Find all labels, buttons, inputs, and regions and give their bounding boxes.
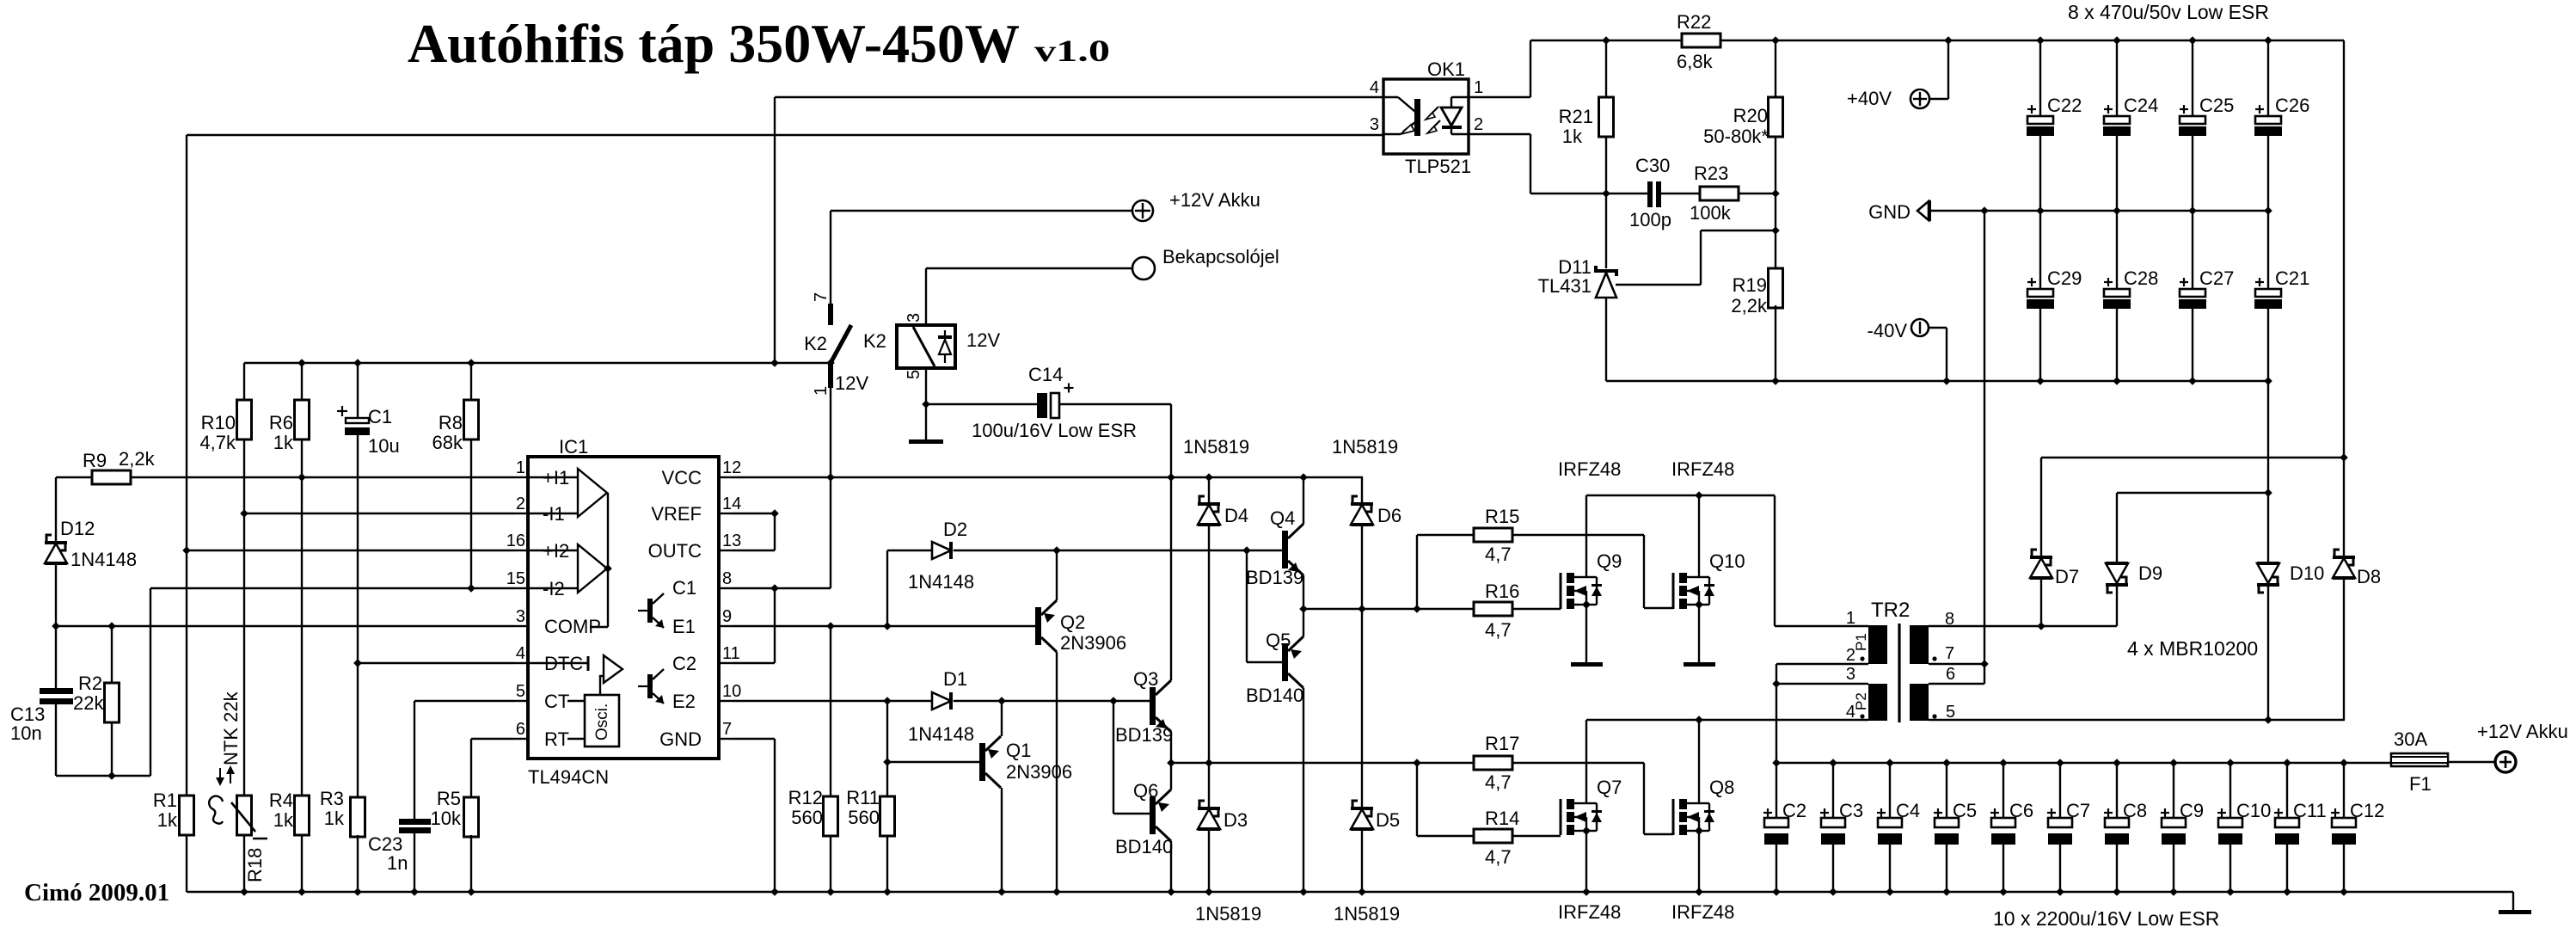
relay K2 coil 12V	[897, 325, 955, 368]
capacitor C11 2200u	[2283, 759, 2291, 767]
svg-text:C22: C22	[2047, 95, 2082, 116]
pin 10 E2 stub	[719, 700, 733, 702]
svg-text:2,2k: 2,2k	[1731, 295, 1768, 316]
diode D4 1N5819	[1199, 496, 1205, 502]
svg-text:D8: D8	[2357, 566, 2381, 587]
svg-text:Q3: Q3	[1133, 668, 1158, 690]
wire FET drain bus top	[1586, 495, 1775, 496]
OK1 LED	[1441, 108, 1462, 126]
node DTC C1 junction	[353, 659, 362, 667]
pin 15 -I2 stub	[514, 587, 528, 589]
svg-text:D7: D7	[2055, 566, 2079, 587]
node rail R8	[467, 359, 475, 367]
svg-text:+12V Akku: +12V Akku	[2477, 721, 2568, 742]
diode D10 MBR10200	[2257, 563, 2279, 583]
node R20 top	[1771, 36, 1780, 45]
wire OK1 pin2 vertical	[1530, 134, 1531, 194]
node COMP left junction	[52, 622, 60, 630]
wire C30 to R23	[1661, 193, 1700, 194]
resistor R20 50-80k*	[1769, 97, 1783, 137]
wire -40V vertical	[1946, 328, 1947, 381]
wire OK1 pin3 feedback line	[187, 134, 1383, 136]
wire TR2 pin8 line	[1929, 625, 2117, 627]
svg-text:1N4148: 1N4148	[71, 549, 137, 570]
terminal Bekapcsolójel	[1132, 257, 1155, 280]
node VCC Q4 junction	[1299, 473, 1308, 482]
node ground rail x2330	[1999, 888, 2008, 896]
wire +40V right corner vertical	[2343, 40, 2345, 556]
OK1 phototransistor	[1414, 99, 1420, 136]
svg-text:1k: 1k	[273, 432, 294, 453]
node ground rail x284	[240, 888, 248, 896]
svg-text:R4: R4	[269, 790, 293, 811]
pin 6 RT stub	[514, 738, 528, 740]
NTC arrows	[219, 768, 221, 783]
svg-text:8: 8	[722, 569, 732, 588]
wire drive line 1 (Q4/Q5 out)	[1303, 608, 1474, 610]
wire C1 pin8 line	[733, 587, 831, 589]
wire R12 bottom	[830, 835, 831, 892]
svg-text:8 x 470u/50v Low ESR: 8 x 470u/50v Low ESR	[2068, 1, 2269, 23]
node Q8 drain bus	[1695, 716, 1703, 724]
node rail R6	[297, 359, 306, 367]
resistor R14 4,7	[1474, 829, 1512, 843]
wire D2 cathode line	[954, 550, 1282, 551]
svg-text:R1: R1	[153, 790, 177, 811]
wire R4 bottom	[301, 835, 303, 892]
svg-text:10n: 10n	[10, 722, 42, 744]
svg-text:TL431: TL431	[1538, 275, 1592, 297]
resistor R15 4,7	[1474, 528, 1512, 542]
svg-text:3: 3	[1370, 115, 1379, 134]
wire +12V rail	[1776, 762, 2391, 764]
wire K2 contact to +12V Akku	[831, 210, 1132, 212]
transistor Q4 BD139	[1282, 531, 1288, 568]
svg-text:Bekapcsolójel: Bekapcsolójel	[1162, 246, 1279, 267]
wire R5 top from RT	[470, 739, 472, 797]
wire pin15 line	[150, 587, 514, 589]
wire OK1 pin1 to R22 line	[1469, 96, 1530, 98]
svg-text:C2: C2	[1782, 800, 1806, 821]
node ground rail x1362	[1167, 888, 1175, 896]
capacitor C30 100p	[1647, 181, 1653, 207]
svg-text:+40V: +40V	[1847, 88, 1892, 109]
wire R10 bottom to pin2 line	[243, 439, 245, 796]
wire D3 bottom	[1208, 829, 1210, 892]
node R19 bottom	[1771, 377, 1780, 385]
wire R3 bottom	[357, 835, 359, 892]
svg-text:1k: 1k	[273, 809, 294, 831]
transformer TR2 secondary S1	[1910, 684, 1929, 721]
node C22 bottom	[2036, 206, 2045, 215]
svg-text:5: 5	[1946, 703, 1955, 722]
wire D10 bottom	[2267, 587, 2269, 720]
node C26 top	[2264, 36, 2272, 45]
node ground rail x2726	[2340, 888, 2348, 896]
wire D2 anode line	[887, 550, 932, 551]
switch K2 contact	[828, 304, 833, 325]
svg-text:7: 7	[812, 292, 831, 302]
wire pin15 route vertical	[150, 588, 151, 776]
svg-text:4: 4	[516, 644, 525, 663]
capacitor C9 2200u	[2169, 759, 2178, 767]
wire relay to C14	[926, 403, 1037, 405]
svg-text:GND: GND	[659, 728, 702, 750]
node drive2 R14 branch	[1413, 759, 1421, 767]
pin 4 DTC stub	[514, 662, 528, 664]
svg-text:R20: R20	[1733, 105, 1768, 126]
resistor R3 1k	[351, 797, 365, 837]
wire C1-C2 tie vertical	[774, 588, 776, 663]
svg-text:1N5819: 1N5819	[1332, 436, 1398, 458]
svg-text:IRFZ48: IRFZ48	[1671, 901, 1734, 923]
wire R15 to Q10 jog	[1512, 534, 1644, 536]
wire R19 bottom	[1775, 305, 1776, 381]
svg-text:IRFZ48: IRFZ48	[1558, 901, 1621, 923]
wire R16 to Q9 gate	[1512, 608, 1561, 610]
wire R11 bottom	[886, 835, 888, 892]
svg-text:2: 2	[1846, 646, 1855, 665]
svg-text:1: 1	[516, 458, 525, 477]
wire D11 bottom to -40V line	[1605, 298, 1607, 381]
svg-text:D1: D1	[943, 668, 967, 690]
node ground rail x482	[410, 888, 419, 896]
wire RT line	[471, 738, 514, 740]
svg-text:C30: C30	[1635, 155, 1670, 176]
svg-text:1k: 1k	[1562, 126, 1583, 147]
node R11 Q1 base junction	[883, 758, 892, 766]
svg-text:Q10: Q10	[1709, 550, 1745, 572]
wire D7 bottom	[2040, 578, 2042, 626]
svg-text:12V: 12V	[966, 329, 1000, 351]
node pin8 D7	[2037, 622, 2045, 630]
node ground rail x351	[297, 888, 306, 896]
capacitor C22 470u	[2039, 40, 2041, 116]
svg-text:12: 12	[722, 458, 741, 477]
svg-text:R10: R10	[201, 412, 236, 433]
wire -40V link	[1929, 327, 1947, 329]
wire R2 bottom	[111, 722, 113, 776]
node rail C1	[353, 359, 362, 367]
wire TR2 pin3	[1776, 683, 1868, 685]
node pin8 tie	[770, 584, 779, 593]
node VCC K2 junction	[826, 473, 835, 482]
wire Q8 drain up	[1698, 720, 1700, 803]
node ground rail x416	[353, 888, 362, 896]
wire TR2 pin5 line	[1929, 719, 2345, 721]
svg-text:C21: C21	[2275, 267, 2309, 289]
wire jog to Q10 gate	[1644, 607, 1673, 609]
wire C14 vertical to VCC	[1170, 404, 1172, 477]
node -40V branch	[1942, 377, 1951, 385]
svg-text:R8: R8	[439, 412, 463, 433]
svg-text:3: 3	[1846, 665, 1855, 684]
wire GND rail	[1930, 210, 2268, 212]
node ground rail x2462	[2113, 888, 2121, 896]
ground relay	[909, 439, 943, 444]
svg-text:1N4148: 1N4148	[908, 571, 974, 593]
svg-text:100k: 100k	[1690, 202, 1732, 224]
node C1 DTC junction	[353, 659, 362, 667]
node ground rail x548	[467, 888, 475, 896]
pin 9 E1 stub	[719, 625, 733, 627]
svg-text:4,7: 4,7	[1485, 544, 1512, 565]
node ground rail x2066	[1772, 888, 1781, 896]
capacitor C12 2200u	[2340, 759, 2348, 767]
fuse F1 30A	[2391, 753, 2448, 766]
node Q10 drain bus	[1695, 491, 1703, 500]
wire Q2 base from E1	[1034, 625, 1036, 627]
op-amp IC1 TL494CN body	[528, 457, 719, 759]
wire D4 top	[1208, 477, 1210, 502]
IC1 error amplifier 1	[578, 469, 607, 517]
wire R19 top	[1775, 230, 1776, 268]
node E1 D2 branch	[883, 622, 892, 630]
capacitor C4 2200u	[1886, 759, 1894, 767]
svg-text:5: 5	[905, 370, 923, 379]
svg-text:BD139: BD139	[1246, 567, 1303, 588]
wire F1 to +12V Akku	[2448, 761, 2495, 763]
svg-text:RT: RT	[544, 728, 569, 750]
pin 14 VREF stub	[719, 513, 733, 514]
IC1 oscillator to comparator wire	[600, 676, 604, 695]
svg-text:K2: K2	[804, 333, 827, 354]
node ground rail x1516	[1299, 888, 1308, 896]
wire -40V feedback line	[1606, 380, 2268, 382]
svg-text:C29: C29	[2047, 267, 2082, 289]
svg-text:14: 14	[722, 495, 741, 513]
svg-text:Autóhifis táp 350W-450W: Autóhifis táp 350W-450W	[408, 13, 1020, 74]
node D6 D5 drive junction	[1358, 605, 1366, 613]
wire R15 jog vertical	[1643, 535, 1645, 608]
wire D8 bottom	[2343, 578, 2345, 720]
svg-text:BD139: BD139	[1115, 724, 1173, 746]
wire Q4 Q5 base tie vertical	[1246, 550, 1248, 662]
node C27 bottom rail	[2188, 377, 2197, 385]
wire Q8 source down	[1698, 831, 1700, 892]
node R20 R23	[1771, 189, 1780, 198]
svg-text:R15: R15	[1485, 506, 1519, 527]
svg-text:3: 3	[516, 607, 525, 626]
wire Q5 collector down	[1303, 688, 1304, 892]
svg-text:Q8: Q8	[1709, 777, 1734, 798]
svg-text:Cimó 2009.01: Cimó 2009.01	[24, 879, 169, 906]
resistor R5 10k	[464, 797, 479, 837]
svg-text:C28: C28	[2124, 267, 2158, 289]
OK1 light arrows	[1429, 107, 1438, 116]
Q9 source bar	[1571, 662, 1603, 667]
wire Q3 base branch vertical	[1113, 701, 1114, 814]
wire OK1 pin2 right	[1469, 133, 1530, 135]
wire D11 top	[1605, 194, 1607, 268]
ground symbol bottom right	[2512, 892, 2514, 910]
node C25 bottom	[2188, 206, 2197, 215]
wire +40V top rail	[1530, 40, 2344, 41]
transformer TR2 core	[1898, 624, 1900, 722]
TR2 phase dots	[1860, 656, 1864, 661]
capacitor C27 470u	[2192, 211, 2193, 289]
svg-text:C26: C26	[2275, 95, 2309, 116]
svg-text:10k: 10k	[431, 808, 462, 829]
svg-text:R14: R14	[1485, 808, 1519, 829]
wire OK1 pin4 feedback line	[775, 96, 1383, 98]
wire jog to Q8 gate	[1644, 833, 1673, 835]
node C2 top	[1772, 759, 1781, 767]
svg-text:4,7: 4,7	[1485, 619, 1512, 641]
pin 2 -I1 stub	[514, 513, 528, 514]
wire R21 top	[1605, 40, 1607, 97]
wire D7 vertical top	[2040, 458, 2042, 556]
wire Q10 drain up	[1698, 495, 1700, 577]
svg-text:C24: C24	[2124, 95, 2158, 116]
wire R1 bottom to ground rail	[186, 835, 187, 892]
diode D5 1N5819	[1352, 801, 1358, 807]
resistor R2 22k	[105, 683, 120, 722]
wire Q7 source down	[1585, 831, 1587, 892]
svg-text:C3: C3	[1839, 800, 1863, 821]
capacitor C25 470u	[2192, 40, 2193, 116]
wire TR2 centre tap to +12V rail	[1776, 684, 1777, 763]
svg-text:Q1: Q1	[1006, 740, 1031, 761]
svg-text:R12: R12	[788, 787, 823, 808]
node ground rail x1976	[1695, 888, 1703, 896]
transistor Q5 BD140	[1282, 643, 1288, 681]
node VREF tie	[770, 509, 779, 518]
svg-text:D4: D4	[1224, 505, 1248, 526]
svg-text:GND: GND	[1868, 201, 1911, 223]
svg-text:OUTC: OUTC	[648, 540, 702, 562]
svg-text:R5: R5	[437, 788, 461, 809]
node R8 pin15 junction	[467, 584, 475, 593]
node pin3 tie	[1772, 679, 1781, 688]
node R10 pin2 junction	[240, 509, 248, 518]
svg-text:OK1: OK1	[1427, 58, 1465, 80]
svg-text:2,2k: 2,2k	[119, 448, 156, 470]
svg-text:2: 2	[516, 495, 525, 513]
transformer TR2 primary P2	[1868, 684, 1887, 721]
svg-text:11: 11	[722, 644, 740, 663]
svg-text:v1.0: v1.0	[1034, 34, 1110, 68]
pin 11 C2 stub	[719, 662, 733, 664]
wire D4 to drive line 2	[1208, 525, 1210, 807]
pin 5 CT stub	[514, 700, 528, 702]
wire E1 line	[733, 625, 1035, 627]
svg-text:4,7k: 4,7k	[199, 432, 236, 453]
svg-text:1: 1	[1846, 609, 1855, 628]
svg-text:1k: 1k	[157, 809, 178, 831]
wire K2 pin7 vertical	[830, 211, 831, 304]
node ground rail x1584	[1358, 888, 1366, 896]
wire drive line 2 (Q3/Q6 out)	[1171, 762, 1474, 764]
resistor R17 4,7	[1474, 756, 1512, 770]
wire C2 pin11 stub	[733, 662, 775, 664]
wire R14 branch vertical	[1416, 763, 1418, 836]
svg-text:R17: R17	[1485, 733, 1519, 754]
capacitor C29 470u	[2039, 211, 2041, 289]
svg-text:6,8k: 6,8k	[1677, 51, 1714, 72]
node C25 top	[2188, 36, 2197, 45]
svg-text:D9: D9	[2138, 562, 2162, 584]
wire Q2 collector down	[1056, 652, 1058, 892]
svg-text:D3: D3	[1224, 809, 1248, 831]
wire C23 bottom	[414, 833, 415, 892]
node C28 bottom rail	[2113, 377, 2121, 385]
node E2 R11	[883, 697, 892, 705]
svg-text:1N5819: 1N5819	[1334, 903, 1400, 925]
node R20 ref	[1771, 226, 1780, 235]
capacitor C28 470u	[2116, 211, 2118, 289]
optocoupler OK1 TLP521	[1383, 79, 1469, 154]
pin 3 COMP stub	[514, 625, 528, 627]
wire VCC rail	[733, 476, 1363, 478]
svg-text:12V: 12V	[835, 372, 868, 394]
node R21 bottom	[1602, 189, 1610, 198]
svg-text:TLP521: TLP521	[1405, 156, 1471, 177]
wire relay pin3 up	[925, 268, 927, 325]
capacitor C21 470u	[2267, 211, 2269, 289]
svg-text:C4: C4	[1896, 800, 1920, 821]
wire Q9 source down	[1585, 605, 1587, 662]
svg-text:C8: C8	[2123, 800, 2147, 821]
capacitor C26 470u	[2267, 40, 2269, 116]
wire pin16 line to R1 column	[187, 550, 514, 551]
wire D9-D10 line	[2117, 492, 2268, 494]
svg-text:R6: R6	[269, 412, 293, 433]
svg-text:6: 6	[1946, 665, 1955, 684]
resistor R6	[295, 400, 310, 439]
transistor Q8 IRFZ48	[1672, 799, 1675, 835]
node rail OK1 branch	[770, 359, 779, 367]
capacitor C13 10n	[40, 688, 73, 694]
capacitor C8 2200u	[2113, 759, 2121, 767]
wire Q10 source down	[1698, 605, 1700, 662]
svg-text:15: 15	[506, 569, 525, 588]
wire OK1 feed vertical	[774, 97, 776, 363]
svg-text:2N3906: 2N3906	[1060, 632, 1126, 654]
svg-text:C27: C27	[2199, 267, 2234, 289]
wire R11 top	[886, 701, 888, 796]
wire left border vertical R1 column	[186, 135, 187, 796]
Q10 source bar	[1684, 662, 1715, 667]
node D10 tie	[2264, 489, 2272, 497]
wire D6 top corner	[1361, 477, 1363, 502]
capacitor C6 2200u	[1999, 759, 2008, 767]
svg-text:4: 4	[1846, 703, 1855, 722]
node ground rail x2528	[2169, 888, 2178, 896]
wire D5 bottom	[1361, 829, 1363, 892]
svg-text:50-80k*: 50-80k*	[1703, 126, 1769, 147]
node GND down branch	[1980, 206, 1989, 215]
svg-text:BD140: BD140	[1115, 836, 1173, 857]
IC1 internal transistor 2	[647, 674, 653, 698]
svg-text:C25: C25	[2199, 95, 2234, 116]
IC1 DTC comparator	[528, 662, 588, 664]
svg-text:R18: R18	[244, 848, 266, 882]
svg-text:VREF: VREF	[651, 503, 702, 525]
node E2 Q1 emitter	[997, 697, 1006, 705]
wire R23 right	[1739, 193, 1776, 194]
wire D7 top line	[2041, 457, 2344, 458]
node ground rail x2396	[2056, 888, 2064, 896]
IC1 error amplifier 2	[578, 544, 607, 593]
svg-text:100u/16V Low ESR: 100u/16V Low ESR	[972, 420, 1137, 441]
svg-text:1: 1	[1474, 78, 1483, 97]
svg-text:Q9: Q9	[1597, 550, 1622, 572]
node R21 top	[1602, 36, 1610, 45]
diode D1 1N4148	[932, 692, 951, 710]
wire R8 bottom to pin15 line	[470, 439, 472, 588]
wire R6 top	[301, 363, 303, 400]
